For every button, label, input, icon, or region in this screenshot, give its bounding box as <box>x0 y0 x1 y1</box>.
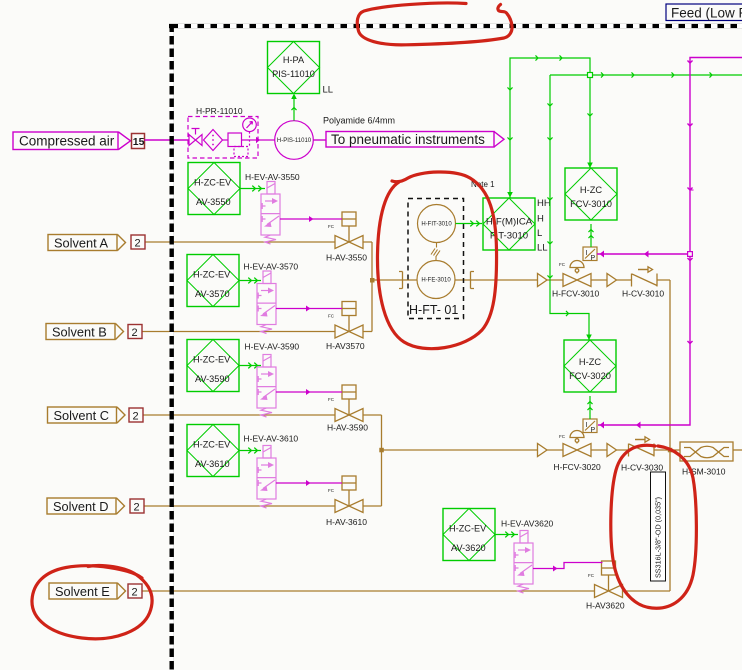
node header junction <box>668 448 673 453</box>
wire EV-3570 to AV-3570 actuator <box>276 308 342 310</box>
svg-text:2: 2 <box>135 238 141 250</box>
solenoid valve H-EV-AV-3620 <box>514 531 533 594</box>
wire line to flow element <box>372 279 538 281</box>
svg-text:2: 2 <box>132 587 138 599</box>
wire FE outlet to FCV-3010 <box>547 279 670 281</box>
svg-text:To pneumatic instruments: To pneumatic instruments <box>331 132 485 147</box>
interlock diamond H-ZC-EV AV-3550 <box>188 163 240 215</box>
node compressed air source flag <box>13 132 131 150</box>
svg-text:I: I <box>586 422 588 429</box>
svg-text:Solvent E: Solvent E <box>55 584 110 599</box>
wire EV-3550 to AV-3550 actuator <box>280 218 342 220</box>
flange left of FE <box>399 272 403 289</box>
svg-text:H-AV-3590: H-AV-3590 <box>327 423 368 433</box>
check valve H-CV-3010 <box>632 267 658 287</box>
reducer after FCV-3020 <box>607 444 617 457</box>
annotation red circle around SS316L spec <box>611 445 697 608</box>
valve H-AV-3610 <box>335 476 363 513</box>
svg-text:AV-3610: AV-3610 <box>195 459 230 469</box>
node solvent B source flag <box>46 324 124 340</box>
svg-text:FC: FC <box>328 224 335 229</box>
capillary link FIT-FE <box>431 243 440 261</box>
svg-text:L: L <box>537 228 542 239</box>
wire ZC to EV-3550 signal <box>240 186 265 192</box>
svg-text:15: 15 <box>133 136 145 148</box>
solenoid valve H-EV-AV-3590 <box>257 355 276 418</box>
svg-text:H-PIS-11010: H-PIS-11010 <box>277 138 312 144</box>
svg-text:H-EV-AV-3610: H-EV-AV-3610 <box>244 434 299 444</box>
wire FCV-3020 outlet to mixer <box>547 449 680 451</box>
svg-text:H-FT- 01: H-FT- 01 <box>409 303 458 317</box>
svg-text:P: P <box>591 427 596 434</box>
node solvent D source flag <box>47 498 125 514</box>
annotation red circle top <box>357 3 512 45</box>
svg-text:2: 2 <box>133 411 139 423</box>
annotation red circle around solvent E <box>32 565 152 638</box>
svg-text:SS316L-3/8"-OD (0,035"): SS316L-3/8"-OD (0,035") <box>654 497 663 578</box>
wire interlock signal trunk <box>550 72 742 77</box>
svg-text:H-ZC: H-ZC <box>580 185 602 195</box>
svg-text:HH: HH <box>537 198 551 209</box>
wire I/P to ZC FCV-3020 <box>587 396 592 419</box>
reducer before FCV-3010 <box>538 274 548 287</box>
valve H-AV-3570 <box>335 302 363 339</box>
flow element H-FE-3010 <box>417 261 455 299</box>
svg-text:H-CV-3010: H-CV-3010 <box>622 289 664 299</box>
svg-text:H-AV-3610: H-AV-3610 <box>326 517 367 527</box>
svg-text:H-PR-11010: H-PR-11010 <box>196 106 243 116</box>
svg-text:FC: FC <box>328 397 335 402</box>
svg-text:H: H <box>537 214 544 225</box>
svg-text:H-ZC: H-ZC <box>579 357 601 367</box>
node solvent E source flag <box>49 583 126 599</box>
svg-text:LL: LL <box>537 243 548 254</box>
svg-text:H-ZC-EV: H-ZC-EV <box>449 524 487 534</box>
node feed destination flag <box>666 4 742 21</box>
interlock diamond H-ZC-EV AV-3620 <box>443 509 495 561</box>
solenoid valve H-EV-AV-3550 <box>261 182 280 245</box>
node C/D junction <box>379 448 384 453</box>
battery limit border vertical <box>169 24 173 670</box>
svg-text:AV-3620: AV-3620 <box>451 543 486 553</box>
wire PIS outlet <box>313 139 326 141</box>
svg-text:P: P <box>591 255 596 262</box>
static mixer H-SM-3010 <box>680 442 733 461</box>
solenoid valve H-EV-AV-3610 <box>257 446 276 509</box>
node to pneumatic instruments flag <box>326 132 504 148</box>
reducer after FCV-3010 <box>607 274 617 287</box>
valve H-AV-3620 <box>595 561 623 598</box>
interlock diamond H-ZC-EV AV-3570 <box>187 255 239 307</box>
svg-text:I: I <box>586 250 588 257</box>
svg-text:H-FE-3010: H-FE-3010 <box>421 278 451 284</box>
svg-text:Feed (Low P: Feed (Low P <box>671 6 742 21</box>
svg-text:FCV-3010: FCV-3010 <box>570 199 612 209</box>
wire A/B manifold riser <box>371 242 373 332</box>
reducer before FCV-3020 <box>538 444 548 457</box>
svg-text:AV-3590: AV-3590 <box>195 374 230 384</box>
svg-text:H-FCV-3010: H-FCV-3010 <box>552 289 600 299</box>
svg-text:FC: FC <box>588 573 595 578</box>
wire compressed air line <box>145 139 189 141</box>
spec label SS316L tubing <box>651 472 666 581</box>
wire I/P to ZC FCV-3010 <box>588 224 593 247</box>
wire solvent D line <box>144 505 382 507</box>
svg-text:2: 2 <box>134 502 140 514</box>
wire FIT to F(M)ICA signal <box>456 221 483 227</box>
svg-text:Solvent A: Solvent A <box>54 236 109 251</box>
svg-text:FC: FC <box>559 434 566 439</box>
I/P converter for FCV-3020 <box>583 419 597 433</box>
annotation red circle around H-FT-01 <box>377 172 496 349</box>
controller diamond H-ZC FCV-3020 <box>564 340 616 392</box>
svg-text:H-EV-AV-3590: H-EV-AV-3590 <box>245 342 300 352</box>
svg-text:H-CV-3030: H-CV-3030 <box>621 463 663 473</box>
controller diamond H-ZC FCV-3010 <box>565 168 617 220</box>
svg-text:FC: FC <box>559 262 566 267</box>
wire C/D manifold riser <box>381 415 383 506</box>
valve H-AV-3550 <box>335 212 363 249</box>
wire product header riser <box>669 280 671 591</box>
valve H-AV-3590 <box>335 385 363 422</box>
svg-text:H-EV-AV-3550: H-EV-AV-3550 <box>245 172 300 182</box>
instrument circle H-FIT-3010 <box>418 205 456 243</box>
wire interlock signal F(M)ICA riser <box>507 55 593 197</box>
interlock diamond H-ZC-EV AV-3610 <box>187 425 239 477</box>
wire solvent A line <box>145 241 372 243</box>
svg-text:H-FCV-3020: H-FCV-3020 <box>554 462 602 472</box>
I/P converter for FCV-3010 <box>583 247 597 261</box>
node solvent A source flag <box>48 235 126 251</box>
filter dots inside H-PR-11010 <box>212 135 214 146</box>
wire ZC to EV-3620 signal <box>495 532 518 538</box>
wire I/P 3010 to trunk <box>597 251 690 258</box>
wire PIS to H-PA signal <box>291 94 297 121</box>
svg-text:2: 2 <box>132 327 138 339</box>
svg-text:Compressed air: Compressed air <box>19 134 115 149</box>
svg-text:FC: FC <box>328 488 335 493</box>
svg-text:H-ZC-EV: H-ZC-EV <box>193 355 231 365</box>
svg-text:FCV-3020: FCV-3020 <box>569 371 611 381</box>
wire mixer outlet <box>733 449 742 451</box>
svg-text:AV-3570: AV-3570 <box>195 289 230 299</box>
wire magenta stub right edge <box>690 189 694 191</box>
wire ZC to EV-3590 signal <box>239 363 261 369</box>
svg-text:H-EV-AV-3570: H-EV-AV-3570 <box>244 262 299 272</box>
svg-text:H-ZC-EV: H-ZC-EV <box>194 178 232 188</box>
wire solvent C line <box>143 414 382 416</box>
node A/B junction <box>370 278 375 283</box>
svg-text:H-FIT-3010: H-FIT-3010 <box>421 222 452 228</box>
svg-text:H-ZC-EV: H-ZC-EV <box>193 440 231 450</box>
svg-text:H-ZC-EV: H-ZC-EV <box>193 270 231 280</box>
svg-text:H-AV3620: H-AV3620 <box>586 601 625 611</box>
flange right of FE <box>471 272 475 289</box>
wire ZC to EV-3610 signal <box>239 448 261 454</box>
interlock diamond H-ZC-EV AV-3590 <box>187 340 239 392</box>
node magenta junction <box>688 252 693 257</box>
instrument circle H-PIS-11010 <box>275 121 314 160</box>
alarm diamond H-F(M)ICA FT-3010 <box>483 198 535 250</box>
wire ZC to EV-3570 signal <box>239 278 261 284</box>
svg-text:H-AV-3550: H-AV-3550 <box>326 253 367 263</box>
svg-text:Solvent C: Solvent C <box>54 408 109 423</box>
svg-text:H-PA: H-PA <box>283 55 305 65</box>
wire solvent E line <box>142 590 670 592</box>
control valve H-FCV-3010 <box>563 261 591 287</box>
wire solvent B line <box>142 331 372 333</box>
svg-text:Polyamide 6/4mm: Polyamide 6/4mm <box>323 116 395 126</box>
battery limit border horizontal <box>169 24 742 28</box>
svg-text:PIS-11010: PIS-11010 <box>272 69 315 79</box>
wire pneumatic supply trunk <box>598 58 742 429</box>
check valve H-CV-3030 <box>629 437 655 457</box>
wire signal drop to FCV-3020 controller <box>547 75 591 340</box>
flow transmitter box H-FT-01 <box>408 199 464 319</box>
wire EV-3620 to AV-3620 actuator <box>533 563 603 569</box>
svg-text:Solvent B: Solvent B <box>52 325 107 340</box>
svg-text:Solvent D: Solvent D <box>53 499 108 514</box>
svg-text:LL: LL <box>323 85 334 96</box>
svg-text:H-EV-AV3620: H-EV-AV3620 <box>501 519 554 529</box>
wire EV-3610 to AV-3610 actuator <box>276 482 342 484</box>
alarm diamond H-PA PIS-11010 <box>268 42 320 94</box>
wire C/D header to FCV-3020 <box>382 449 538 451</box>
node solvent C source flag <box>48 407 126 423</box>
svg-text:H-AV3570: H-AV3570 <box>326 341 365 351</box>
control valve H-FCV-3020 <box>563 431 591 457</box>
svg-text:FC: FC <box>328 314 335 319</box>
solenoid valve H-EV-AV-3570 <box>257 271 276 334</box>
svg-text:AV-3550: AV-3550 <box>196 197 231 207</box>
node green junction <box>588 73 593 78</box>
wire EV-3590 to AV-3590 actuator <box>276 391 342 393</box>
